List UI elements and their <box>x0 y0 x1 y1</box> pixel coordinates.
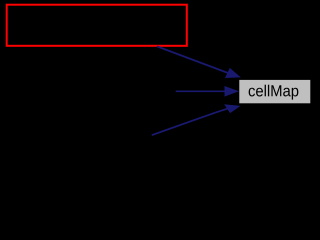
edge 1: from red box to cellMap <box>157 46 241 78</box>
node cellMap (gray filled) <box>239 80 310 103</box>
edge 2: horizontal arrow to cellMap <box>176 86 239 97</box>
node: red-bordered box (truncated source node) <box>7 5 187 46</box>
edge 3: from lower-left to cellMap <box>152 104 241 135</box>
